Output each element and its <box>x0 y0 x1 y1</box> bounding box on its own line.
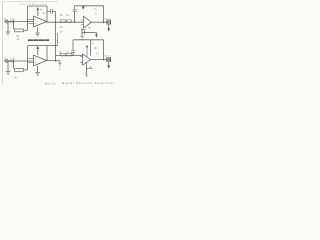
node junction <box>81 29 82 30</box>
resistor R3 <box>60 20 65 23</box>
wire A2 inverting drop <box>81 28 83 36</box>
node junction <box>72 55 73 56</box>
wire R2 right leg <box>24 29 28 31</box>
node junction (A1 out / bus) <box>55 22 56 23</box>
op-amp A1 <box>34 16 47 27</box>
output jack J4 <box>107 57 111 61</box>
svg-text:Equal Section Amplifier: Equal Section Amplifier <box>62 81 115 85</box>
wire to ground (upper input) <box>7 22 9 32</box>
wire bus right leg <box>103 6 105 22</box>
node junction <box>74 22 75 23</box>
wire A4 inputs stubs <box>80 57 83 63</box>
sheet top rule <box>3 1 58 3</box>
wire A2 output <box>92 21 107 23</box>
supply arrow -V <box>95 32 97 34</box>
op-amp A2 <box>84 16 92 28</box>
wire R6 right leg <box>24 69 28 71</box>
wire A1 input stubs <box>29 19 34 23</box>
sheet left border <box>2 1 4 84</box>
capacitor C3 (A2 feedback) <box>74 6 76 9</box>
ground (A4 divider) <box>85 74 88 77</box>
ground (below A1) <box>37 27 39 32</box>
wire input (upper) <box>4 21 34 23</box>
wire to ground (lower input) <box>7 61 9 71</box>
wire A4 inverting drop <box>86 63 88 74</box>
wire A4 output <box>91 59 107 61</box>
node junction <box>27 60 28 61</box>
capacitor C1 <box>12 20 13 23</box>
node junction <box>27 21 28 22</box>
ground <box>6 32 10 35</box>
input terminal J1 <box>6 20 9 23</box>
wire top bus (A2 feedback) <box>75 5 104 7</box>
wire inter-channel bus <box>55 12 57 61</box>
node junction <box>86 68 87 69</box>
wire feedback top (upper) <box>28 5 48 7</box>
wire divider tap <box>87 67 93 69</box>
wire input (lower) <box>4 60 34 62</box>
op-amp A3 <box>34 55 47 66</box>
supply arrow +V (A3) <box>36 46 39 49</box>
node junction <box>9 60 11 62</box>
capacitor C5 <box>71 51 75 53</box>
wire A3 input stubs <box>29 58 34 62</box>
wire divider tap (upper) <box>82 29 86 31</box>
ground arrow (below J2) <box>108 24 110 28</box>
node junction <box>13 21 14 22</box>
supply arrow tap <box>82 6 85 9</box>
ground (A2 divider) <box>80 37 83 40</box>
op-amp A4 <box>83 54 91 65</box>
svg-text:Back Sec: Back Sec <box>45 81 57 85</box>
input terminal J3 <box>6 60 9 63</box>
wire feedback top (lower) <box>28 45 58 47</box>
wire A2 inputs stubs <box>81 20 84 25</box>
supply arrow +V (A1) <box>36 7 39 10</box>
wire feedback box left <box>90 40 92 56</box>
wire cap leg (lower) <box>72 40 74 51</box>
resistor R2 <box>15 29 24 32</box>
supply arrow +V (A4) <box>86 45 88 48</box>
ground arrow (below J4) <box>108 62 110 66</box>
ground (below A3) <box>37 66 39 72</box>
node junction <box>55 45 56 46</box>
node junction <box>9 21 11 23</box>
node junction (bus end) <box>55 60 56 61</box>
resistor R8 <box>66 53 71 56</box>
ground (A3 output tap) <box>59 61 61 64</box>
ground <box>6 72 10 75</box>
resistor R4 <box>66 20 71 23</box>
wire box right / A4 out leg <box>103 40 105 60</box>
capacitor C4 <box>12 59 13 62</box>
wire stub mid <box>57 33 59 46</box>
caption upper section <box>28 39 49 41</box>
wire feedback right leg (lower) <box>46 46 48 61</box>
node junction (A4 out) <box>103 59 105 61</box>
node junction (A2 out) <box>103 21 105 23</box>
wire A3 output <box>47 60 60 62</box>
resistor R7 <box>60 53 65 56</box>
wire A1 output <box>47 21 84 23</box>
wire feedback left leg (upper) <box>27 6 29 30</box>
wire drop R2 left <box>13 22 15 30</box>
node junction <box>13 60 14 61</box>
wire feedback box top (lower right) <box>73 39 104 41</box>
capacitor C2 (A1 feedback) <box>47 11 50 13</box>
output jack J2 <box>107 20 111 24</box>
capacitor plate <box>83 30 85 34</box>
resistor R6 <box>15 69 24 72</box>
wire drop R6 left <box>13 61 15 69</box>
wire lower mid <box>56 55 84 57</box>
wire to supply arrow <box>82 31 96 33</box>
wire feedback right leg (upper) <box>46 6 48 22</box>
wire feedback left leg (lower) <box>27 46 29 70</box>
